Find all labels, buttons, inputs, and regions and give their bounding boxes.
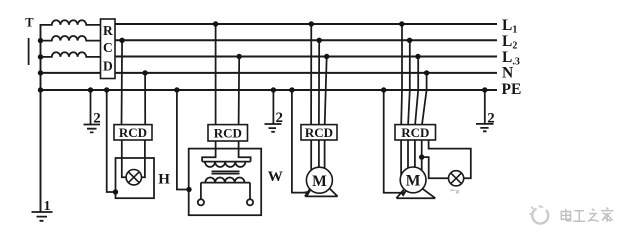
junction: L1 / RCD3 tap: [213, 21, 218, 26]
transformer T winding phase 3: [41, 52, 101, 57]
terminal circle left of W secondary: [198, 199, 204, 205]
wire L2 tap to RCD4: [318, 40, 320, 124]
wire W secondary right lead: [249, 183, 251, 200]
wire L1 tap to RCD4: [310, 24, 312, 125]
svg-text:RCD: RCD: [305, 125, 333, 140]
wire RCD3 to transformer W primary right: [239, 141, 251, 162]
junction: N / RCD5 tap: [424, 70, 429, 75]
junction: PE / motor M1 drop: [289, 87, 294, 92]
svg-text:M: M: [312, 173, 327, 190]
junction: bus to N: [38, 70, 43, 75]
wire PE drop to motor M1 frame: [292, 90, 306, 193]
transformer T winding phase 2: [41, 36, 101, 41]
ground symbol 2 right: [476, 124, 494, 131]
lamp H symbol: [126, 170, 141, 185]
junction: bus to winding 2: [38, 38, 43, 43]
wire N tap to RCD5: [422, 73, 427, 125]
wire transformer star-point bus: [40, 24, 42, 212]
svg-text:RCD: RCD: [401, 125, 429, 140]
wire N tap to RCD2: [144, 73, 146, 125]
RCD U4 box: [301, 125, 337, 140]
junction: PE / W enclosure drop: [174, 87, 179, 92]
svg-text:M: M: [406, 173, 421, 190]
svg-text:PE: PE: [502, 81, 522, 98]
junction: L3 / RCD4 tap: [324, 54, 329, 59]
wire L3 bus: [115, 56, 497, 58]
wire L1 tap to RCD3: [215, 24, 217, 125]
wire RCD5 to motor M2 phase 2: [407, 140, 409, 168]
junction: bus to PE: [38, 87, 43, 92]
wire RCD5 neutral down to motor M2: [421, 140, 423, 170]
svg-text:R: R: [103, 23, 113, 38]
wire PE drop to transformer W enclosure: [177, 90, 189, 190]
motor M2 pedestal: [396, 188, 435, 199]
wire RCD4 to motor M1 phase 1: [310, 140, 312, 170]
ground symbol 1 (system earth): [32, 212, 53, 221]
terminal circle right of W secondary: [247, 199, 253, 205]
PE bonding arrow at motor M2 frame: [400, 191, 407, 197]
svg-text:T: T: [25, 16, 34, 30]
wire RCD4 to motor M1 phase 2: [318, 140, 320, 167]
wire N bus: [41, 72, 498, 74]
RCD U2 box: [114, 125, 152, 140]
wire RCD2 to lamp H right lead: [141, 140, 145, 177]
wire L2 tap to RCD5: [408, 40, 410, 124]
watermark text 电工之家: [561, 208, 613, 222]
svg-text:2: 2: [276, 110, 284, 126]
svg-text:N: N: [502, 64, 513, 81]
wire PE drop to motor M2 frame: [384, 90, 401, 193]
ground electrode 2 stub (left): [90, 90, 92, 124]
junction: L3 / RCD3 tap: [237, 54, 242, 59]
wire PE drop to lamp H enclosure: [107, 90, 116, 192]
RCD U1 (main) box: [101, 19, 116, 79]
wire RCD5 to motor M2 phase 1: [400, 140, 402, 176]
svg-text:RCD: RCD: [214, 125, 242, 140]
junction: L2 / RCD4 tap: [317, 38, 322, 43]
ground symbol 2 left: [84, 125, 101, 133]
faint watermark remnant under lamp HL: [450, 190, 459, 194]
junction: PE / ground 2 left: [88, 87, 93, 92]
wire PE bus: [41, 89, 498, 91]
ground electrode 2 stub (middle): [272, 90, 274, 124]
wire W secondary left lead: [200, 183, 202, 200]
junction: PE / ground 2 middle: [271, 87, 276, 92]
junction: PE / ground 2 right: [482, 87, 487, 92]
junction: PE at W enclosure: [186, 187, 191, 192]
transformer T winding phase 1: [41, 20, 101, 25]
wire RCD2 to lamp H left lead: [122, 140, 126, 177]
wire L3 tap to RCD5: [415, 57, 418, 125]
T label tick mark: [28, 38, 30, 65]
wire L2 tap to RCD2: [121, 40, 124, 124]
junction: L2 / RCD2 tap: [119, 38, 124, 43]
svg-text:C: C: [103, 40, 113, 55]
junction: L2 / RCD5 tap: [407, 38, 412, 43]
junction: L1 / RCD5 tap: [399, 21, 404, 26]
watermark logo circle: [530, 206, 549, 223]
junction: L3 / RCD5 tap: [415, 54, 420, 59]
svg-text:W: W: [268, 169, 283, 185]
junction: PE / motor M2 drop: [381, 87, 386, 92]
wire L2 bus: [115, 39, 497, 41]
svg-text:2: 2: [487, 110, 495, 126]
motor M2 symbol: [400, 167, 426, 193]
junction: bus to winding 3: [38, 54, 43, 59]
wire L3 tap to RCD4: [325, 57, 327, 125]
svg-text:D: D: [103, 59, 113, 74]
junction: L1 / RCD4 tap: [309, 21, 314, 26]
junction: PE at lamp H enclosure: [113, 189, 118, 194]
svg-text:RCD: RCD: [119, 125, 147, 140]
ground electrode 2 stub (right): [484, 90, 486, 123]
wire L1 tap to RCD5: [400, 24, 403, 125]
wire node to lamp HL left lead: [422, 157, 449, 178]
junction: N / RCD2 tap: [142, 70, 147, 75]
svg-text:2: 2: [93, 111, 101, 127]
junction: neutral node at RCD5 output: [419, 154, 424, 159]
svg-text:H: H: [158, 172, 170, 188]
ground symbol 2 middle: [265, 124, 282, 132]
wire RCD3 to transformer W primary left: [202, 141, 216, 162]
motor M1 pedestal: [305, 186, 338, 196]
transformer W enclosure box: [189, 149, 262, 216]
lamp HL symbol (motor circuit): [449, 171, 464, 186]
wire RCD5 to motor M2 phase 3: [414, 140, 416, 167]
wire RCD4 to motor M1 phase 3: [324, 140, 326, 169]
wire L3 tap to RCD3: [238, 57, 241, 125]
lamp H enclosure box: [116, 158, 155, 198]
wire RCD5 to lamp HL right lead: [429, 140, 471, 178]
transformer W primary winding: [202, 162, 251, 167]
PE bonding arrow at motor M1 frame: [304, 190, 311, 196]
RCD U3 box: [208, 125, 248, 141]
transformer W secondary winding: [201, 178, 250, 183]
RCD U5 box: [395, 125, 436, 140]
motor M1 symbol: [306, 167, 332, 193]
svg-text:1: 1: [44, 199, 51, 214]
junction: PE / lamp H enclosure drop: [104, 87, 109, 92]
transformer W core: [212, 171, 240, 173]
wire L1 bus: [115, 23, 497, 25]
